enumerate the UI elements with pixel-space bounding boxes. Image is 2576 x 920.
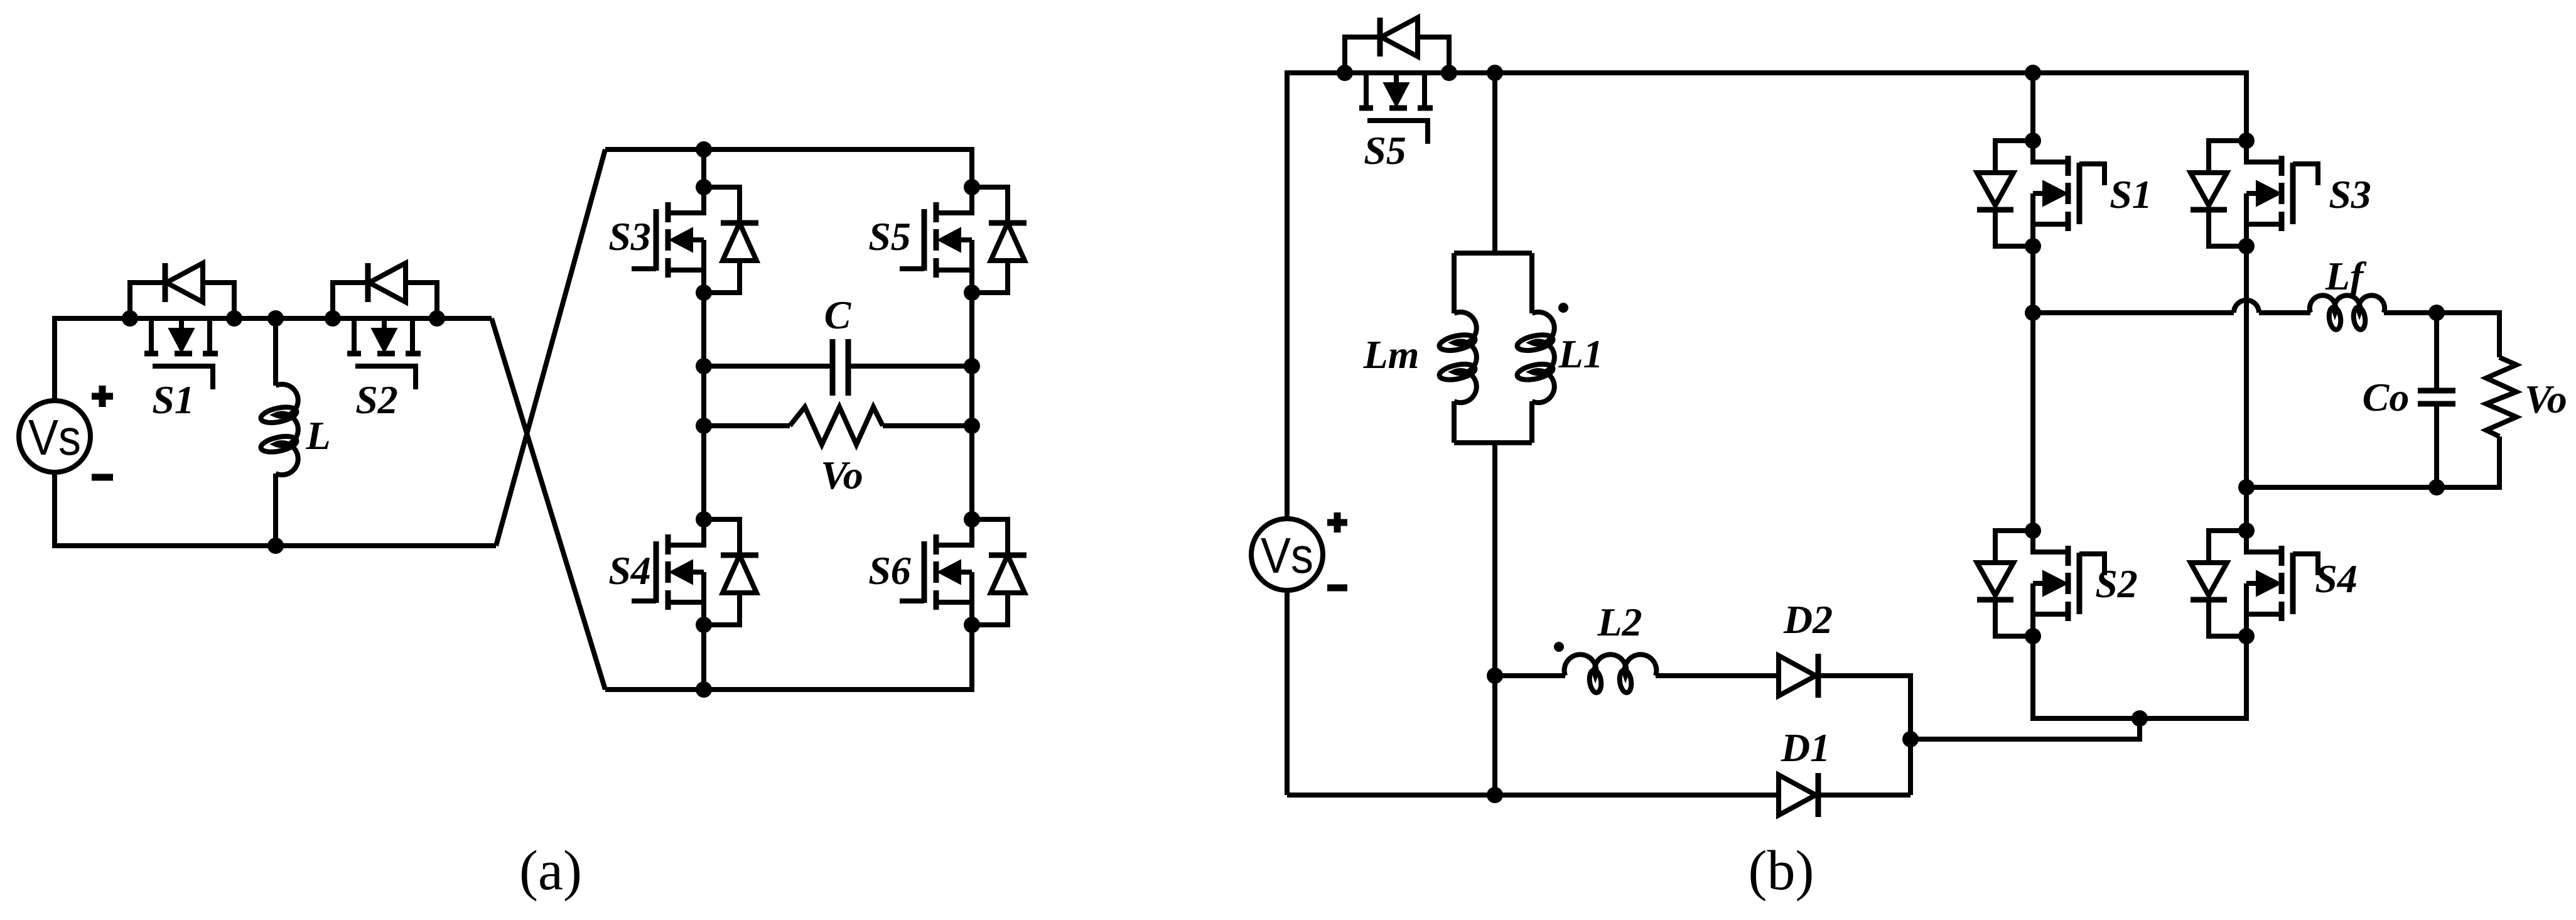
wire left leg mid (b) [2030,246,2035,531]
node bridge bottom-left leg (a) [696,681,712,698]
wire Lm feed top [1492,73,1497,253]
label S5 (b) [1364,128,1406,173]
wire bridge top rail (a) [605,149,972,187]
phase dot L2 [1554,642,1564,652]
node bridge top-left leg (a) [696,141,712,158]
label S1 (b) [2110,172,2152,217]
label Lm [1363,332,1420,377]
inductor Lm [1438,312,1477,403]
svg-text:S3: S3 [2329,172,2371,217]
svg-text:Lm: Lm [1363,332,1420,377]
svg-text:D1: D1 [1781,725,1830,770]
svg-text:S2: S2 [355,377,398,422]
wire bottom rail (b bridge) [2033,636,2246,718]
caption (b) [1749,840,1814,902]
wire right leg mid (b) [2244,246,2249,531]
wire D1 to corner [1818,793,1910,798]
wire top rail (b) [1287,73,2246,519]
wire L2 to D2 [1656,673,1779,678]
svg-text:Vo: Vo [821,453,863,497]
label D1 [1781,725,1830,770]
wire hop over right leg [2234,300,2259,313]
label Vo (b) [2525,377,2567,421]
wire Lf to corner [2384,313,2499,357]
wire L1 branch upper [1529,253,1534,313]
label S6 [868,548,911,593]
label Lf [2325,254,2367,298]
minus sign Vs (b) [1327,585,1347,592]
wire bottom rail to D1 [1287,793,1779,798]
svg-text:Vs: Vs [28,409,81,465]
wire res to output bottom [2246,436,2499,487]
transistor S2 [325,263,445,389]
capacitor Co top lead [2434,313,2439,391]
node Co bottom [2428,479,2445,495]
wire cross diagonal top-to-bottom [492,318,605,690]
wire Lm block top bar [1454,251,1532,256]
label S4 [608,548,651,593]
plus sign Vs (b) [1327,512,1347,533]
svg-text:Vs: Vs [1261,528,1313,583]
wire resistor Vo right [883,423,972,428]
wire bottom rail (a) [55,472,496,546]
diode D1 [1779,773,1818,817]
wire mid-left to hop [2033,310,2234,315]
wire Lm branch upper [1452,253,1457,313]
svg-text:L: L [305,413,330,458]
inductor L1 [1516,312,1555,403]
svg-text:Lf: Lf [2325,254,2367,298]
wire left leg lower (a) [701,625,706,690]
transistor S5 (b) [1337,18,1457,144]
node res right (a) [964,418,980,434]
transistor S4 (b) [2191,522,2318,644]
inductor L [259,384,298,475]
resistor Vo (a) [790,407,883,445]
svg-text:S6: S6 [868,548,911,593]
node mid-left (b) [2025,305,2041,321]
label L [305,413,330,458]
wire Lm block bottom bar [1454,440,1532,445]
label S1 [152,377,195,422]
wire L branch top [273,318,278,386]
wire D node to bridge [1910,718,2140,739]
svg-text:Vo: Vo [2525,377,2567,421]
node L2 tap (b) [1487,668,1503,684]
transistor S1 (b) [1977,133,2104,254]
svg-text:Co: Co [2363,375,2410,419]
node D junction [1902,731,1919,747]
label S3 (b) [2329,172,2371,217]
resistor Vo (b) [2486,357,2516,436]
wire left leg upper (a) [701,149,706,187]
wire left leg middle (a) [701,293,706,519]
minus sign Vs (a) [92,474,113,481]
transistor S5 [900,179,1027,301]
svg-text:S4: S4 [608,548,651,593]
svg-text:(b): (b) [1749,840,1814,902]
capacitor Co [2418,391,2455,404]
transistor S2 (b) [1977,522,2104,644]
wire D2 to corner [1818,676,1910,795]
node cap left (a) [696,358,712,374]
transistor S1 [122,263,242,389]
transistor S4 [632,511,758,633]
capacitor Co bottom lead [2434,404,2439,487]
node cap right (a) [964,358,980,374]
node L top (a) [267,310,284,327]
label C [824,293,852,337]
voltage source Vs (a) [19,401,90,472]
wire cross diagonal bottom-to-top [496,149,605,546]
svg-text:S3: S3 [608,214,651,259]
label S4 (b) [2315,556,2358,601]
svg-text:S4: S4 [2315,556,2358,601]
node bottom rail tap (b) [1487,787,1503,803]
node bridge bottom mid (b) [2131,710,2148,727]
transistor S6 [900,511,1027,633]
svg-text:S2: S2 [2095,561,2138,606]
phase dot L1 [1558,303,1568,313]
inductor L2 [1565,654,1657,693]
label S5 [868,214,911,259]
voltage source Vs (b) [1251,519,1323,590]
label L1 [1558,332,1603,376]
diode D2 [1779,654,1818,698]
svg-text:S5: S5 [1364,128,1406,173]
label S3 [608,214,651,259]
label S2 [355,377,398,422]
wire capacitor C left [704,364,833,369]
wire L2 lead left [1495,673,1565,678]
svg-text:D2: D2 [1783,597,1833,642]
node Lm feed top (b) [1487,65,1503,81]
wire L branch bottom [273,474,278,546]
wire left leg top (b) [2030,73,2035,141]
wire hop to Lf [2259,310,2310,315]
wire bridge bottom rail (a) [605,625,972,690]
wire Lm branch lower [1452,401,1457,443]
transistor S3 [632,179,758,301]
node L bottom (a) [267,538,284,554]
wire capacitor C right [848,364,972,369]
node bridge top-left (b) [2025,65,2041,81]
node Co top [2428,305,2445,321]
svg-text:S1: S1 [2110,172,2152,217]
svg-text:S5: S5 [868,214,911,259]
wire Lm feed bottom [1492,443,1497,795]
svg-text:(a): (a) [519,840,582,902]
node mid-right (b) [2238,479,2255,495]
caption (a) [519,840,582,902]
wire L1 branch lower [1529,401,1534,443]
wire left vertical bottom (b) [1285,590,1290,795]
node res left (a) [696,418,712,434]
plus sign Vs (a) [92,386,113,407]
wire top rail (a) [55,318,492,401]
svg-text:S1: S1 [152,377,195,422]
transistor S3 (b) [2191,133,2318,254]
label D2 [1783,597,1833,642]
inductor Lf [2310,295,2385,330]
label Vo (a) [821,453,863,497]
wire right leg middle (a) [969,293,974,519]
svg-text:L2: L2 [1597,600,1642,644]
svg-text:C: C [824,293,852,337]
svg-text:L1: L1 [1558,332,1603,376]
capacitor C [833,339,848,396]
wire resistor Vo left [704,423,790,428]
label S2 (b) [2095,561,2138,606]
label L2 [1597,600,1642,644]
label Co [2363,375,2410,419]
